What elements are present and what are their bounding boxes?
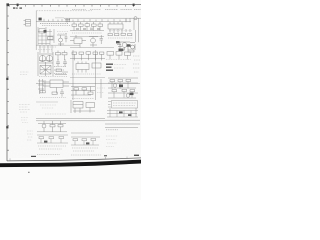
middle band component row: [70, 52, 105, 61]
text specks right block row2: [109, 30, 132, 32]
IC U3: [76, 62, 89, 73]
text labels cluster left block row2: [38, 48, 52, 50]
component leads on bus C: [44, 19, 126, 22]
output stage Q3 Q4 heavy cluster: [116, 41, 135, 52]
resistor R11: [92, 63, 101, 68]
capacitor C3: [100, 35, 103, 44]
junction node A: [65, 19, 70, 23]
transformer T1: [38, 52, 53, 76]
faint header text row right: [72, 9, 141, 11]
wire: right lower horizontals: [105, 120, 140, 127]
border frame top ruler line: [7, 4, 141, 6]
faint marks S2: [21, 118, 28, 123]
text specks right block: [108, 37, 133, 39]
marks row AA: [106, 129, 118, 131]
wire: upper horizontal bus B: [64, 17, 141, 19]
resistor network R4-R8 row: [72, 22, 103, 30]
wire: stub line left of bus B: [55, 17, 64, 19]
left ruler dark index marks: [6, 78, 8, 80]
text specks under P: [40, 97, 66, 99]
resistor R3: [48, 37, 54, 40]
wire: connector line y47.5: [70, 47, 114, 49]
wire: horizontal bus C: [36, 21, 131, 23]
wire: faint line upper W: [36, 101, 58, 103]
resistor R2 row labels: [42, 25, 70, 27]
title text above bottom line: [31, 155, 139, 157]
wire: vertical link x101: [100, 79, 102, 98]
wire: long horizontals lower: [36, 119, 105, 121]
wire: right bus vertical: [133, 18, 135, 30]
wire: vertical feed line: [35, 11, 37, 50]
capacitor C8 right of relay: [54, 67, 66, 74]
right edge marks: [133, 56, 140, 72]
capacitor C1: [39, 18, 42, 21]
dark dashes right mid: [106, 64, 113, 71]
top ruler tick marks: [10, 5, 134, 7]
wire: top dashed bus: [36, 10, 92, 12]
dense lower block Y: [71, 133, 100, 151]
capacitor row C5 C6 C7: [76, 28, 100, 29]
scan edge black band: [0, 160, 141, 168]
stray dot below band: [28, 172, 30, 173]
IC U1 with pin field: [38, 27, 54, 45]
wire: connector line y36.5: [70, 36, 104, 38]
right mid boxes: [106, 52, 131, 60]
text specks upper W: [40, 105, 56, 108]
text specks mid row: [72, 73, 101, 75]
transistor Q1: [57, 35, 65, 46]
bottom ruler ticks: [10, 157, 127, 161]
faint label column left: [20, 72, 29, 75]
text specks right mid: [114, 65, 126, 69]
cluster O rows: [71, 87, 95, 96]
resistor R10 row mid: [56, 51, 68, 61]
wire: column feeds into T1: [40, 45, 52, 53]
resistor R1 row labels: [40, 22, 68, 24]
faint label column S: [19, 105, 30, 113]
text specks x97-105: [97, 88, 105, 93]
lower mid cluster P: [40, 80, 69, 97]
wire: long line y45: [36, 44, 80, 46]
text specks cluster O: [72, 98, 94, 100]
note text rows 2: [71, 154, 101, 156]
relay K1 box with X: [40, 66, 51, 75]
border frame left ruler line: [6, 5, 8, 161]
capacitor C4 cluster: [55, 59, 68, 75]
text specks above lower bus: [45, 113, 66, 115]
relay cluster T: [71, 100, 95, 113]
components on lower bus W: [38, 121, 66, 132]
heavy right cluster Q: [108, 78, 138, 98]
figure caption text "Fig. 2": [13, 7, 22, 8]
diode D1 cluster: [70, 35, 86, 48]
lamp LP1 on bus: [134, 17, 137, 20]
text specks under transformer: [39, 76, 67, 78]
text specks under row: [72, 32, 102, 34]
connector J1 block: [24, 20, 31, 27]
wire: partial bus above: [70, 77, 105, 79]
transistor Q2: [89, 37, 98, 47]
capacitor C2: [65, 33, 68, 42]
choke L1 vertical bars: [38, 79, 44, 94]
text specks above Q1: [57, 32, 68, 34]
text specks bottom right: [106, 136, 118, 147]
resistor R9 row right: [108, 33, 132, 36]
heavy right cluster U: [107, 101, 138, 118]
IC U2 top right: [108, 22, 123, 33]
wire: vertical rails mid: [73, 50, 96, 100]
note text rows: [37, 154, 60, 156]
left ruler tick marks: [7, 16, 9, 150]
text labels cluster left block: [39, 46, 56, 48]
wire: bus under resistor row: [70, 30, 104, 32]
wire: right drops: [126, 18, 139, 42]
dense lower block X: [37, 132, 68, 149]
faint marks Z: [27, 131, 33, 140]
wire: long mid bus: [36, 83, 140, 85]
top ruler dark index marks: [6, 3, 9, 6]
border frame bottom line: [7, 158, 141, 161]
